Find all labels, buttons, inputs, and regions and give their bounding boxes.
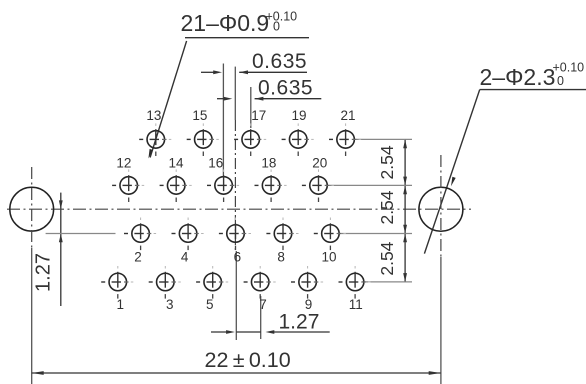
svg-text:1.27: 1.27 [279,310,320,333]
svg-text:7: 7 [259,297,267,312]
leader shelf for 21-phi0.9 [185,37,309,39]
main horizontal centerline [7,208,471,210]
label 2-phi2.3 [480,61,585,91]
pin 15 [187,123,219,156]
pin 4 [172,218,204,251]
pin 14 [160,169,192,202]
pin 3 [149,266,181,299]
pin 21 [329,123,361,156]
pin 20 [302,169,334,202]
svg-text:9: 9 [305,297,313,312]
svg-text:3: 3 [166,297,174,312]
leader diagonal to right hole [424,90,479,254]
svg-text:+0.10: +0.10 [266,10,298,24]
svg-text:2.54: 2.54 [377,145,397,179]
svg-text:4: 4 [181,250,189,265]
svg-text:13: 13 [146,108,161,123]
svg-text:2.54: 2.54 [377,190,397,224]
mounting hole right [419,187,463,231]
pin 1 [101,266,133,299]
dimension 1.27 bottom [211,310,330,334]
extension line col7 bottom [260,296,262,339]
svg-text:15: 15 [192,108,207,123]
vertical centerline axis (dash-dot) [234,120,236,251]
extension line col17 top [250,87,252,128]
extension line col6 bottom [235,251,237,340]
svg-text:0: 0 [273,20,280,34]
dimension 22 +-0.10 [32,348,441,375]
dimension chain 2.54 right [326,139,412,282]
pin 19 [282,123,314,156]
pin 16 [207,169,239,202]
extension line center top [234,67,236,120]
svg-text:6: 6 [234,250,242,265]
svg-text:11: 11 [349,297,363,312]
svg-text:0.635: 0.635 [258,77,313,100]
leader shelf for 2-phi2.3 [480,89,586,91]
dimension 0.635 first [201,50,307,74]
leader arrowhead at pin 13 [147,149,153,159]
pin 9 [291,266,323,299]
svg-text:17: 17 [251,108,266,123]
svg-text:2: 2 [134,250,142,265]
pin 18 [255,169,287,202]
left hole vertical centerline [31,167,33,248]
pin 8 [266,218,298,251]
pin 7 [244,266,276,299]
svg-text:21–Φ0.9: 21–Φ0.9 [181,10,270,36]
mounting hole left [10,187,54,231]
svg-text:2.54: 2.54 [377,241,397,275]
svg-text:22 ± 0.10: 22 ± 0.10 [205,348,291,372]
svg-text:21: 21 [340,108,355,123]
leader diagonal to pin 13 [150,41,187,158]
svg-text:18: 18 [261,156,276,171]
svg-text:5: 5 [206,297,214,312]
left hole extension line down [31,248,33,384]
label 21-phi0.9 [181,10,298,37]
svg-text:2–Φ2.3: 2–Φ2.3 [480,64,556,90]
pin 2 [124,218,156,251]
svg-text:19: 19 [291,108,306,123]
svg-text:20: 20 [312,156,327,171]
svg-text:1: 1 [117,297,125,312]
pin 6 [219,218,251,251]
pin 13 [139,123,171,156]
svg-text:+0.10: +0.10 [553,61,585,75]
svg-text:12: 12 [116,156,131,171]
svg-text:0: 0 [557,74,564,88]
svg-text:8: 8 [277,250,285,265]
dimension 1.27 left [33,193,116,306]
svg-text:1.27: 1.27 [33,253,55,292]
svg-text:14: 14 [168,156,184,171]
pin 11 [339,266,371,299]
svg-text:10: 10 [321,250,336,265]
pin 12 [112,169,144,202]
right hole vertical centerline [440,155,442,257]
dimension 0.635 second [217,77,321,101]
pin 10 [314,218,346,251]
leader arrowhead at right hole [449,177,455,187]
right hole extension line down [440,257,442,384]
extension line col16 top [222,64,224,176]
pin 17 [234,123,266,156]
pin 5 [196,266,228,299]
svg-text:0.635: 0.635 [252,50,307,73]
svg-text:16: 16 [208,156,223,171]
